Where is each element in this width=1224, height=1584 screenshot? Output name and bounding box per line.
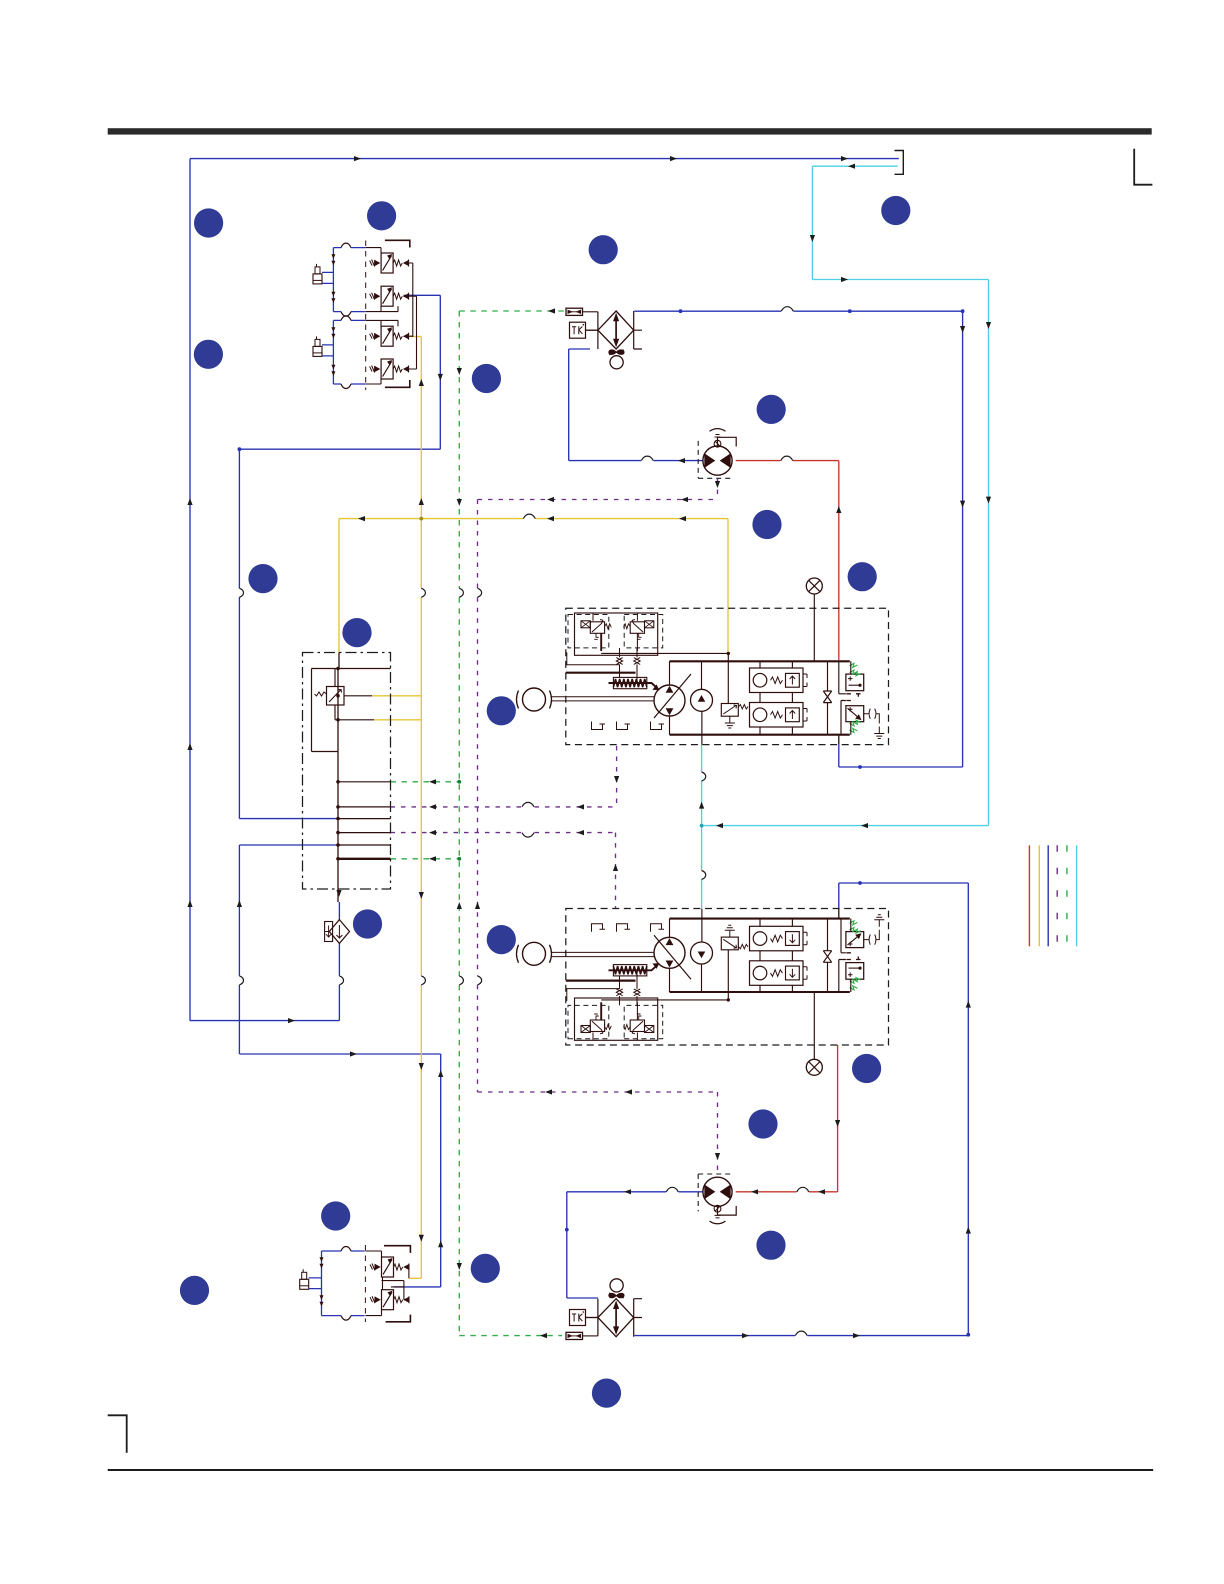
wire: cooler down leg <box>569 349 590 461</box>
wire: main return left side <box>189 159 191 1021</box>
oil cooler 1 (top) with thermal bypass and strainer <box>566 308 642 369</box>
shock valve V2 <box>381 286 393 306</box>
wire: left trunk vertical <box>238 449 240 1054</box>
left front wheel motor M1 <box>332 248 334 312</box>
pressure test port gauge 2 <box>806 1059 822 1075</box>
wire: trunk to rear axle <box>239 1053 440 1055</box>
wire: front axle aux line <box>408 336 421 338</box>
wire hop arcs charge drop <box>702 772 706 781</box>
pump1 assembly boundary <box>566 608 889 744</box>
wire: pump1 case drain <box>391 806 617 808</box>
pump2 assembly boundary <box>566 909 889 1046</box>
motor2 boundary bracket <box>698 1174 734 1211</box>
brake cylinder front motor M2 <box>313 346 322 356</box>
left front wheel motor M2 <box>332 320 334 384</box>
wire: case drain bottom run <box>478 1091 718 1093</box>
wire: right loop down pump2 <box>967 883 969 1335</box>
wire: fan motor1 return <box>736 460 839 462</box>
rear loop flow arrowheads <box>320 1257 324 1262</box>
oil cooler 2 (bottom) <box>566 1279 642 1340</box>
junction dots <box>848 309 852 313</box>
manifold relief valve <box>327 687 345 706</box>
wire: case drain trunk <box>477 500 479 1093</box>
wire: suction trunk vertical <box>458 311 460 1336</box>
wire hop arcs horizontal lines <box>781 307 793 312</box>
wire: manifold taps <box>372 695 421 697</box>
wire: filter tail <box>338 902 340 1021</box>
brake cylinder front motor M1 <box>313 274 322 284</box>
wire: pump2 to right loop <box>839 883 969 909</box>
pressure test port gauge 1 <box>806 578 822 594</box>
wire: fan motor2 out <box>567 1191 703 1193</box>
wire: suction line to cooler1 strainer <box>459 310 565 312</box>
shock valve V5 <box>382 1257 394 1277</box>
wire: manifold feed upper <box>239 818 338 820</box>
wire: fan motor2 supply <box>837 1045 839 1192</box>
callout dots <box>194 208 223 237</box>
front valve block frame <box>385 240 410 387</box>
wire: manifold suction stub upper <box>391 781 460 783</box>
rear crossover <box>382 1267 409 1300</box>
wire hop arcs row y=980.4 <box>239 976 243 985</box>
wire: aux cross line <box>339 518 728 520</box>
wire: manifold suction stub lower <box>391 858 460 860</box>
wire: aux to pump1 <box>727 519 729 654</box>
wire: main return line top <box>190 158 899 160</box>
rear wheel motor M3 <box>321 1251 323 1316</box>
hydrostatic pump 2 (right drive) <box>517 909 885 1060</box>
wire: pump2 case drain <box>391 832 616 834</box>
fan drive motor 2 <box>703 1177 736 1224</box>
shock valve V6 <box>382 1290 394 1310</box>
shock valve V4 <box>381 359 393 379</box>
wire: to fan motor1 <box>569 460 703 462</box>
footer rule bottom <box>108 1469 1154 1471</box>
wire hop arcs row y=592.8 <box>239 588 243 597</box>
wire: manifold feed lower <box>239 844 338 846</box>
flow arrows <box>354 156 361 161</box>
wire: pump1 charge drop <box>701 745 703 909</box>
wire: rear wheel motor riser <box>394 1054 441 1287</box>
wire: rear axle tap <box>409 1277 421 1279</box>
front crossover lines <box>413 263 417 369</box>
wire: motor2 case drain <box>717 1092 719 1174</box>
motor1 boundary bracket <box>698 441 734 478</box>
hydrostatic pump 1 (left drive) <box>517 594 885 745</box>
front axle port plate dashed line <box>365 241 367 391</box>
wire: front wheel motor link <box>239 295 440 449</box>
wire: charge crossover <box>702 825 989 827</box>
title bar top <box>108 128 1152 134</box>
return filter with bypass <box>329 920 349 944</box>
rear axle port plate dashed line <box>364 1245 366 1322</box>
wire: motor1 case drain <box>717 479 719 500</box>
brake cylinder rear motor <box>300 1279 309 1289</box>
wire: return to filter bottom <box>190 1020 339 1022</box>
rear valve block frame <box>384 1246 410 1322</box>
wire: motor2 to cooler2 <box>567 1192 598 1298</box>
tank port connector bracket <box>895 151 904 175</box>
corner mark top-right <box>1134 149 1152 185</box>
wire: charge line from tank port <box>812 165 897 167</box>
wire: cooler2 out bottom <box>635 1334 969 1337</box>
wire: right loop to pump1 <box>839 745 963 767</box>
manifold branch stubs <box>338 781 391 783</box>
shock valve V1 <box>381 253 393 273</box>
manifold main gallery <box>338 653 339 859</box>
wire: cooler out to right loop <box>634 310 962 312</box>
wire: right loop down <box>962 311 964 767</box>
shock valve V3 <box>381 326 393 346</box>
wire: suction to cooler2 strainer <box>459 1335 562 1337</box>
fan drive motor 1 <box>703 429 736 476</box>
legend color key <box>1028 845 1030 946</box>
loop flow arrowheads <box>331 254 335 259</box>
control manifold boundary <box>303 653 391 890</box>
front tap to blue <box>404 294 407 296</box>
corner mark bottom-left <box>108 1415 127 1453</box>
